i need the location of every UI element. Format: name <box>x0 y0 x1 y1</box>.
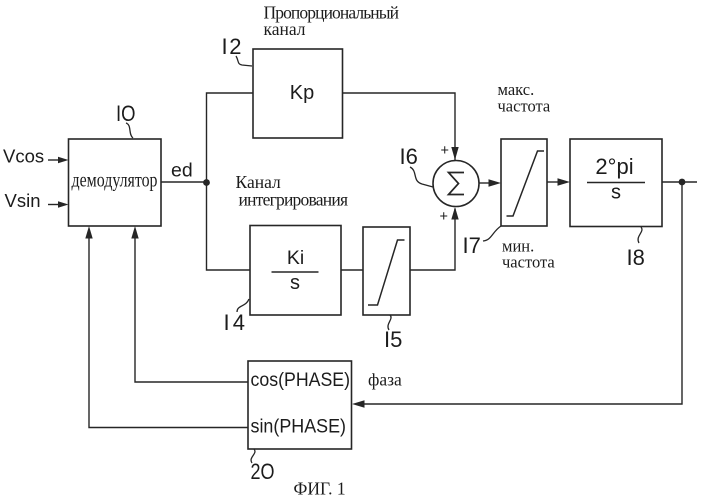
wire demodulator output to node ed <box>161 181 207 183</box>
svg-text:интегрирования: интегрирования <box>239 190 349 210</box>
arrowhead cos feedback into demodulator <box>131 226 138 239</box>
wire limiter 15 to summing bottom <box>410 209 455 271</box>
limiter block 15 <box>363 227 410 315</box>
leader 12 <box>236 56 252 66</box>
limiter 15 curve <box>368 240 405 305</box>
wire Ki output to limiter 15 <box>341 269 363 271</box>
arrowhead Vsin <box>58 201 69 208</box>
svg-text:демодулятор: демодулятор <box>72 170 158 192</box>
block cos/sin PHASE (20) <box>248 361 352 449</box>
svg-text:2O: 2O <box>251 459 275 484</box>
svg-text:I7: I7 <box>463 233 481 258</box>
summing junction U16 <box>433 161 479 207</box>
node ed junction dot <box>203 179 210 186</box>
leader 15 <box>388 315 391 330</box>
leader 17 <box>483 226 501 241</box>
svg-text:+: + <box>441 143 449 159</box>
svg-text:I2: I2 <box>222 34 242 59</box>
arrowhead feedback into block 20 <box>352 400 365 407</box>
wire Vsin input <box>48 204 59 206</box>
wire Kp output to summing top <box>343 93 456 161</box>
wire node up to Kp input <box>207 93 254 182</box>
svg-text:s: s <box>290 272 300 294</box>
wire block 18 output <box>662 181 697 183</box>
wire summing to limiter 17 <box>479 182 492 184</box>
svg-text:ФИГ. 1: ФИГ. 1 <box>294 479 346 499</box>
svg-text:2°pi: 2°pi <box>595 154 633 179</box>
wire cos feedback <box>135 235 248 382</box>
svg-text:Vcos: Vcos <box>3 146 44 167</box>
arrowhead into limiter 17 <box>489 179 502 186</box>
block 2°pi/s (18) <box>570 139 662 227</box>
arrowhead Vcos <box>58 157 69 164</box>
wire feedback phase to block 20 <box>361 182 682 404</box>
svg-text:Kp: Kp <box>290 82 314 104</box>
limiter 17 curve <box>507 151 545 216</box>
leader 20 <box>251 449 255 463</box>
node output junction dot <box>679 179 686 186</box>
wire node down to Ki input <box>207 182 251 270</box>
svg-text:I4: I4 <box>224 310 246 335</box>
arrowhead into summing bottom <box>451 207 458 220</box>
wire sin feedback <box>89 235 248 428</box>
block демодулятор (10) <box>69 139 162 226</box>
arrowhead into block 18 <box>558 178 571 185</box>
block Ki/s (14) <box>250 226 341 316</box>
fraction bar Ki/s <box>272 271 319 273</box>
leader 16 <box>410 167 433 187</box>
svg-text:фаза: фаза <box>368 370 402 390</box>
svg-text:+: + <box>440 209 448 225</box>
block Kp (12) <box>253 49 343 138</box>
leader 14 <box>237 299 249 312</box>
svg-text:sin(PHASE): sin(PHASE) <box>251 417 347 438</box>
wire limiter 17 to block 18 <box>547 181 561 183</box>
svg-text:ed: ed <box>171 160 193 182</box>
fraction bar 2°pi/s <box>587 182 645 184</box>
svg-text:IO: IO <box>116 101 136 126</box>
leader 18 <box>638 227 642 243</box>
arrowhead sin feedback into demodulator <box>85 226 92 239</box>
svg-text:I8: I8 <box>627 245 645 270</box>
arrowhead into summing top <box>451 147 458 160</box>
svg-text:Vsin: Vsin <box>5 190 41 211</box>
svg-text:канал: канал <box>264 19 306 39</box>
wire Vcos input <box>48 159 59 161</box>
svg-text:I5: I5 <box>384 327 402 352</box>
limiter block 17 <box>501 139 547 226</box>
svg-text:s: s <box>611 182 621 204</box>
svg-text:Ki: Ki <box>287 247 304 269</box>
svg-text:частота: частота <box>502 253 555 272</box>
svg-text:I6: I6 <box>400 144 418 169</box>
svg-text:cos(PHASE): cos(PHASE) <box>251 370 351 391</box>
svg-text:частота: частота <box>498 97 551 116</box>
leader 10 <box>126 123 133 138</box>
sigma in summing <box>449 173 465 195</box>
